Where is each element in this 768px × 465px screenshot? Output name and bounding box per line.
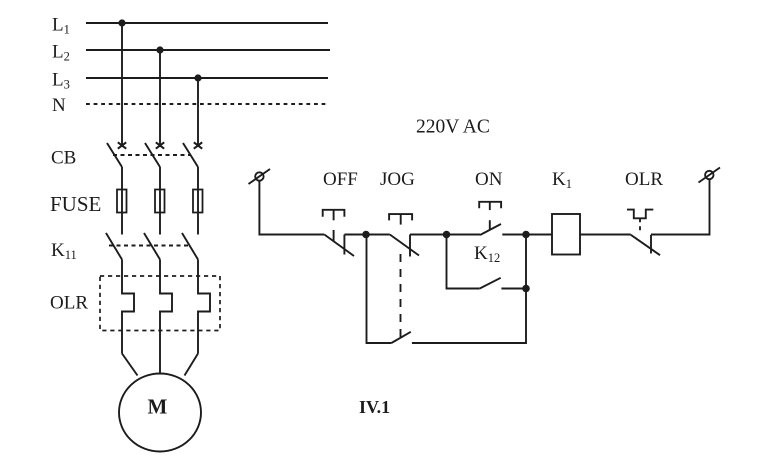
wire K1 to OLR contact bbox=[580, 234, 631, 236]
wire phase 3 to motor bbox=[185, 354, 199, 376]
overload relay contact OLR (NC) bbox=[627, 210, 660, 256]
fuse F2 bbox=[155, 190, 165, 213]
wire phase 3 drop bbox=[197, 78, 199, 145]
svg-text:IV.1: IV.1 bbox=[359, 397, 390, 417]
wire OLR contact to right terminal bbox=[651, 179, 710, 234]
svg-text:L2: L2 bbox=[52, 42, 70, 64]
JOG mechanical link stem (dashed) bbox=[400, 254, 402, 337]
wire JOG to node B bbox=[410, 234, 447, 236]
wire OFF to node A bbox=[344, 234, 366, 236]
fuse F3 bbox=[193, 190, 203, 213]
motor M bbox=[119, 374, 201, 452]
wire node A to JOG bbox=[366, 234, 390, 236]
wire phase 1 to motor bbox=[122, 354, 138, 376]
fuse F1 bbox=[117, 190, 127, 213]
OLR heater element phase 1 bbox=[122, 260, 134, 354]
wire L3 bus bbox=[86, 77, 328, 79]
pushbutton JOG lower contact (NO) bbox=[391, 332, 410, 343]
svg-text:OFF: OFF bbox=[323, 169, 358, 190]
svg-text:L3: L3 bbox=[52, 70, 70, 92]
auxiliary contact K12 (NO) bbox=[480, 278, 501, 289]
terminal left (circle with slash) bbox=[249, 169, 271, 184]
terminal right (circle with slash) bbox=[699, 168, 721, 183]
wire phase 2 CB to K11 bbox=[159, 167, 161, 235]
pushbutton OFF (NC) bbox=[323, 210, 354, 256]
coil K1 bbox=[552, 214, 580, 255]
node D junction (K12 branch) bbox=[522, 285, 530, 293]
svg-text:FUSE: FUSE bbox=[50, 192, 101, 216]
svg-text:K1: K1 bbox=[552, 169, 572, 191]
svg-text:L1: L1 bbox=[52, 15, 70, 37]
wire ON to node C bbox=[502, 234, 526, 236]
wire left terminal drop bbox=[259, 181, 324, 235]
svg-text:JOG: JOG bbox=[380, 169, 415, 190]
svg-text:ON: ON bbox=[475, 169, 503, 190]
wire phase 1 drop bbox=[121, 23, 123, 145]
svg-text:OLR: OLR bbox=[625, 169, 663, 190]
node L3 tap junction bbox=[194, 74, 201, 81]
overload relay OLR boundary box (dashed) bbox=[100, 276, 220, 331]
node L1 tap junction bbox=[118, 19, 125, 26]
node B junction bbox=[443, 231, 451, 239]
contactor contact K11 pole 1 bbox=[106, 233, 122, 260]
circuit breaker CB pole 1 bbox=[107, 142, 126, 167]
wire node C to K1 coil bbox=[526, 234, 552, 236]
node A junction bbox=[362, 231, 370, 239]
wire phase 3 CB to K11 bbox=[197, 167, 199, 235]
contactor contact K11 pole 2 bbox=[144, 233, 160, 260]
pushbutton ON (NO) bbox=[479, 202, 501, 235]
circuit breaker CB pole 3 bbox=[183, 142, 202, 167]
OLR heater element phase 3 bbox=[198, 260, 210, 354]
node C junction bbox=[522, 231, 530, 239]
K11 mechanical link (dashed) bbox=[109, 245, 190, 247]
wire K12 to node D bbox=[501, 288, 526, 290]
svg-text:220V AC: 220V AC bbox=[416, 117, 490, 138]
wire node B to ON bbox=[447, 234, 481, 236]
OLR heater element phase 2 bbox=[160, 260, 172, 375]
wire node B drop to K12 bbox=[447, 235, 480, 289]
wire L2 bus bbox=[86, 49, 330, 51]
wire phase 2 drop bbox=[159, 50, 161, 145]
svg-text:M: M bbox=[148, 395, 168, 419]
svg-text:CB: CB bbox=[51, 148, 76, 169]
pushbutton JOG (NC) bbox=[389, 214, 419, 256]
wire node A drop (left leg of jog branch) bbox=[367, 235, 392, 344]
wire phase 1 CB to K11 bbox=[121, 167, 123, 235]
wire jog branch bottom to node D bbox=[412, 235, 526, 344]
svg-text:K12: K12 bbox=[474, 243, 500, 265]
wire L1 bus bbox=[86, 22, 328, 24]
svg-text:N: N bbox=[52, 95, 66, 116]
svg-text:OLR: OLR bbox=[50, 293, 88, 314]
wire N bus (dashed) bbox=[86, 103, 328, 105]
contactor contact K11 pole 3 bbox=[182, 233, 198, 260]
node L2 tap junction bbox=[156, 46, 163, 53]
svg-text:K11: K11 bbox=[51, 240, 77, 262]
CB mechanical link (dashed) bbox=[113, 154, 191, 156]
circuit breaker CB pole 2 bbox=[145, 142, 164, 167]
